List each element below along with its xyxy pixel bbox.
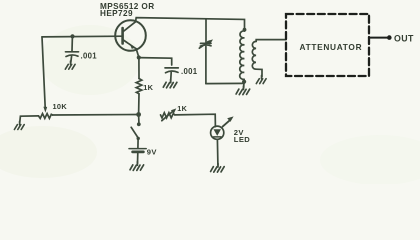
ground (C1)	[65, 61, 75, 69]
resistor R2 1K	[136, 58, 142, 115]
ground (L1)	[236, 86, 250, 95]
svg-text:.001: .001	[81, 51, 98, 60]
junction base/C1	[70, 34, 74, 38]
wire emitter to C2	[139, 58, 172, 65]
wire base	[42, 35, 123, 38]
svg-text:9V: 9V	[147, 148, 158, 157]
wire attenuator output	[369, 37, 388, 39]
attenuator box	[286, 14, 369, 76]
svg-text:1K: 1K	[143, 83, 153, 92]
terminal OUT	[387, 35, 392, 40]
junction tank top	[243, 28, 247, 32]
junction emitter	[137, 55, 141, 59]
ground (left)	[14, 121, 24, 129]
junction L1 bottom	[242, 80, 246, 84]
junction bottom	[136, 112, 141, 117]
svg-text:10K: 10K	[53, 102, 68, 111]
wire emitter	[136, 49, 139, 58]
ground (LED)	[211, 164, 225, 173]
wire bottom right to LED	[175, 114, 216, 126]
svg-text:ATTENUATOR: ATTENUATOR	[300, 42, 363, 52]
capacitor C1	[66, 37, 79, 63]
wire to left ground	[20, 116, 39, 123]
inductor L2 secondary	[252, 41, 256, 69]
wire collector / top	[136, 18, 245, 31]
ground (L2)	[256, 75, 266, 83]
svg-text:OUT: OUT	[394, 33, 414, 43]
wire L2 top to attenuator	[256, 40, 286, 42]
rheostat R3 1K body	[161, 113, 175, 118]
battery B1	[129, 139, 146, 163]
rheostat R3 arrow	[162, 108, 177, 120]
capacitor C2	[165, 68, 178, 81]
wire bottom left	[53, 114, 139, 117]
wire L2 bottom	[256, 69, 262, 77]
svg-text:LED: LED	[234, 135, 251, 144]
transistor Q1	[115, 20, 146, 51]
inductor L1 primary	[240, 31, 245, 79]
svg-text:HEP729: HEP729	[100, 9, 133, 18]
potentiometer wiper wire (base to R1)	[42, 37, 47, 113]
svg-text:.001: .001	[181, 67, 198, 76]
background tint blobs	[0, 0, 420, 184]
ground (battery)	[130, 162, 144, 171]
wire tank bottom	[206, 82, 244, 84]
variable capacitor C3	[199, 20, 213, 84]
LED D1	[211, 126, 224, 165]
switch S1	[131, 115, 141, 141]
LED emission arrow	[223, 116, 234, 126]
svg-text:1K: 1K	[177, 104, 187, 113]
ground (C2)	[163, 79, 177, 88]
potentiometer R1 10K body	[39, 114, 53, 119]
